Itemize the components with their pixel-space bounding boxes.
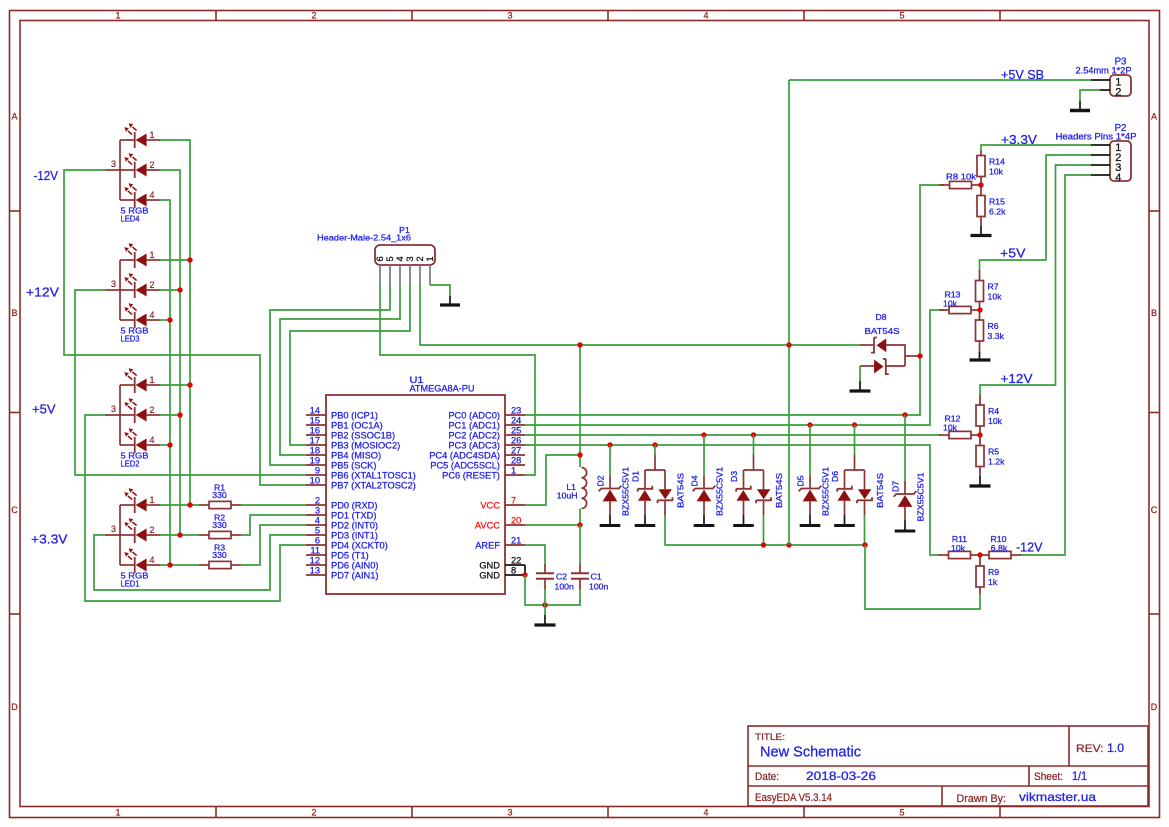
svg-text:C2: C2 — [556, 572, 567, 582]
svg-text:PB4 (MISO): PB4 (MISO) — [331, 451, 381, 461]
svg-text:10k: 10k — [988, 292, 1003, 302]
wire +5V clamp rail — [665, 544, 866, 546]
svg-text:B: B — [11, 308, 17, 318]
wire bus LED pins 1 (vertical x=190) — [160, 140, 190, 505]
title block — [748, 726, 1148, 806]
svg-text:28: 28 — [511, 456, 521, 466]
svg-text:4: 4 — [150, 310, 155, 320]
svg-text:BAT54S: BAT54S — [875, 473, 885, 508]
wire LED3 pin1 feed — [160, 259, 190, 261]
svg-text:PD5 (T1): PD5 (T1) — [331, 551, 369, 561]
svg-text:C1: C1 — [591, 572, 602, 582]
diode D6 BAT54S dual with ground — [830, 425, 885, 545]
svg-text:GND: GND — [479, 571, 500, 581]
svg-text:10: 10 — [310, 476, 320, 486]
connector P3 2.54mm 1*2P — [1076, 57, 1132, 99]
svg-text:LED2: LED2 — [121, 459, 140, 469]
wire net +3.3V(LED1): LED1 pin3 to U1 PD3 (pin 5) — [94, 535, 306, 590]
svg-text:BZX55C5V1: BZX55C5V1 — [621, 467, 631, 516]
resistor R9 1k — [976, 555, 999, 594]
wire U1 PC3 (pin 26) ADC3 row to R11 — [525, 445, 940, 555]
svg-text:PB7 (XTAL2TOSC2): PB7 (XTAL2TOSC2) — [331, 481, 416, 491]
wire +5V riser to L1 top and VCC — [579, 345, 581, 467]
IC U1 ATMEGA8A-PU microcontroller — [306, 375, 525, 594]
svg-text:+5V: +5V — [1000, 246, 1026, 261]
diode D3 BAT54S dual with ground — [729, 435, 784, 545]
svg-text:11: 11 — [310, 546, 320, 556]
wire bus LED pins 4 (vertical x=170) — [160, 200, 170, 565]
svg-text:13: 13 — [310, 566, 320, 576]
svg-text:BZX55C5V1: BZX55C5V1 — [715, 467, 725, 516]
svg-text:2.54mm 1*2P: 2.54mm 1*2P — [1076, 65, 1132, 75]
svg-text:C: C — [11, 505, 18, 515]
wire LED2 pin1 feed — [160, 384, 190, 386]
svg-text:330: 330 — [212, 550, 227, 560]
svg-text:2: 2 — [150, 280, 155, 290]
junction ADC row dots — [607, 412, 907, 447]
ground below D8 — [850, 366, 871, 391]
svg-text:LED1: LED1 — [121, 579, 140, 589]
svg-text:4: 4 — [150, 435, 155, 445]
svg-text:1: 1 — [150, 130, 155, 140]
svg-text:7: 7 — [511, 496, 516, 506]
svg-text:+5V: +5V — [32, 402, 56, 417]
junction D8 to ADC0 line — [917, 353, 922, 358]
svg-text:3: 3 — [111, 159, 116, 169]
RGB LED LED3 (pins 1,2,3,4) — [105, 243, 160, 344]
wire +5V SB to P3 pin1 — [789, 79, 1091, 81]
inductor L1 10uH — [557, 467, 587, 508]
svg-text:R8 10k: R8 10k — [946, 172, 977, 182]
wire net -12V: LED4 pin3 to U1 PB7 (pin 10) — [64, 170, 306, 485]
svg-text:+3.3V: +3.3V — [1001, 132, 1037, 147]
svg-text:R7: R7 — [988, 282, 999, 292]
svg-text:D: D — [1151, 702, 1158, 712]
svg-text:PB5 (SCK): PB5 (SCK) — [331, 461, 376, 471]
svg-text:Sheet:: Sheet: — [1034, 771, 1063, 783]
zener diode D5 BZX55C5V1 with ground — [796, 425, 831, 526]
svg-text:GND: GND — [479, 561, 500, 571]
svg-text:1: 1 — [511, 466, 516, 476]
RGB LED LED1 (pins 1,2,3,4) — [105, 488, 160, 589]
svg-text:6: 6 — [315, 536, 320, 546]
svg-text:9: 9 — [315, 466, 320, 476]
svg-text:D1: D1 — [631, 471, 641, 482]
wire U1 AREF (pin 21) to C2 — [525, 545, 545, 564]
wire rail loop to R9 bottom — [865, 545, 980, 609]
svg-text:BAT54S: BAT54S — [676, 473, 686, 508]
svg-text:3: 3 — [315, 506, 320, 516]
wire +5V label wire to P2 pin2 riser — [980, 155, 1092, 270]
wire R3 to U1 PD2 (pin 4) — [241, 525, 306, 565]
svg-text:2018-03-26: 2018-03-26 — [806, 769, 876, 783]
svg-text:3: 3 — [507, 10, 512, 20]
wire U1 PC0 (pin 23) ADC0 row to R8 — [525, 185, 944, 415]
svg-text:Headers Pins 1*4P: Headers Pins 1*4P — [1056, 132, 1137, 142]
svg-text:4: 4 — [1115, 172, 1121, 184]
wire bus LED pins 2 (vertical x=180) — [160, 170, 180, 535]
svg-text:2: 2 — [150, 525, 155, 535]
svg-text:2: 2 — [150, 405, 155, 415]
resistor R5 1.2k — [976, 435, 1005, 476]
wire P1 pin4 to U1 PB4 (pin 18) — [280, 285, 400, 455]
svg-text:1: 1 — [425, 256, 435, 261]
svg-text:D5: D5 — [796, 475, 806, 486]
svg-text:10k: 10k — [951, 543, 966, 553]
svg-text:+3.3V: +3.3V — [31, 532, 68, 547]
svg-text:TITLE:: TITLE: — [755, 732, 785, 743]
wire L1 bottom to AVCC node — [579, 509, 581, 526]
svg-text:LED4: LED4 — [121, 214, 140, 224]
svg-text:20: 20 — [511, 516, 521, 526]
svg-text:2: 2 — [315, 496, 320, 506]
junction +3.3V divider node — [978, 182, 983, 187]
svg-text:PB6 (XTAL1TOSC1): PB6 (XTAL1TOSC1) — [331, 471, 416, 481]
svg-text:D8: D8 — [875, 312, 886, 322]
svg-text:PC2 (ADC2): PC2 (ADC2) — [448, 431, 500, 441]
svg-text:4: 4 — [395, 256, 405, 261]
svg-text:6.2k: 6.2k — [989, 207, 1006, 217]
svg-text:2: 2 — [415, 256, 425, 261]
svg-text:R14: R14 — [989, 157, 1005, 167]
svg-text:PD4 (XCKT0): PD4 (XCKT0) — [331, 541, 388, 551]
wire P3 pin2 to ground — [1080, 90, 1100, 101]
wire LED2 pin4 feed — [160, 444, 170, 446]
svg-text:AVCC: AVCC — [475, 521, 500, 531]
wire LED2 pin2 feed — [160, 414, 180, 416]
svg-text:330: 330 — [212, 490, 227, 500]
junction +12V divider node — [977, 432, 982, 437]
resistor R13 10k — [939, 290, 981, 314]
svg-text:D: D — [11, 702, 18, 712]
svg-text:2: 2 — [1115, 87, 1121, 99]
svg-text:ATMEGA8A-PU: ATMEGA8A-PU — [410, 384, 475, 394]
wire U1 PC1 (pin 24) ADC1 row to R13 — [525, 310, 944, 425]
wire U1 AVCC (pin 20) to node — [525, 524, 580, 526]
svg-text:Date:: Date: — [755, 771, 779, 783]
svg-text:VCC: VCC — [480, 501, 500, 511]
diode D1 BAT54S dual with ground — [631, 445, 686, 545]
svg-text:1k: 1k — [988, 577, 998, 587]
svg-text:6: 6 — [375, 256, 385, 261]
wire AVCC node down to C1 — [579, 525, 581, 564]
svg-text:2: 2 — [311, 10, 316, 20]
resistor R14 10k — [977, 151, 1005, 186]
ground below R6 — [970, 352, 991, 360]
svg-text:R6: R6 — [988, 321, 999, 331]
junction GND net — [542, 602, 547, 607]
svg-text:8: 8 — [511, 566, 516, 576]
svg-text:6.8k: 6.8k — [991, 543, 1008, 553]
svg-text:1: 1 — [115, 10, 120, 20]
junction AVCC node — [577, 522, 582, 527]
wire +12V to P2 pin3 riser — [980, 165, 1091, 395]
wire LED1 pin2 to R2 — [160, 534, 199, 536]
junction -12V divider node — [977, 552, 982, 557]
svg-text:3.3k: 3.3k — [988, 331, 1005, 341]
svg-text:1.2k: 1.2k — [988, 457, 1005, 467]
junction +5V nodes — [577, 342, 582, 457]
wire U1 PC2 (pin 25) ADC2 row to R12 — [525, 434, 941, 436]
svg-text:PD0 (RXD): PD0 (RXD) — [331, 501, 378, 511]
svg-text:10k: 10k — [943, 423, 958, 433]
svg-text:R4: R4 — [988, 406, 999, 416]
svg-text:26: 26 — [511, 436, 521, 446]
svg-text:1: 1 — [150, 495, 155, 505]
svg-text:27: 27 — [511, 446, 521, 456]
wire R1 to U1 PD0 (pin 2) — [241, 504, 306, 506]
svg-text:5: 5 — [899, 10, 904, 20]
resistor R12 10k — [939, 414, 981, 439]
wire U1 GND pins 22,8 tie — [524, 565, 526, 575]
svg-text:+5V SB: +5V SB — [1001, 67, 1044, 82]
svg-text:D3: D3 — [729, 471, 739, 482]
svg-text:1: 1 — [150, 375, 155, 385]
junction riser to +5V row — [786, 342, 791, 347]
ground below R5 — [970, 476, 991, 486]
svg-text:Header-Male-2.54_1x6: Header-Male-2.54_1x6 — [317, 233, 411, 243]
svg-text:PD6 (AIN0): PD6 (AIN0) — [331, 561, 379, 571]
svg-text:10uH: 10uH — [557, 491, 578, 501]
capacitor C2 100n — [536, 564, 574, 591]
svg-text:24: 24 — [511, 416, 521, 426]
resistor R8 10k — [940, 172, 982, 189]
svg-text:New Schematic: New Schematic — [760, 744, 861, 761]
svg-text:vikmaster.ua: vikmaster.ua — [1019, 790, 1096, 804]
svg-text:R5: R5 — [988, 447, 999, 457]
svg-text:PB3 (MOSIOC2): PB3 (MOSIOC2) — [331, 441, 400, 451]
ground below P1 pin1 — [440, 296, 460, 305]
resistor R7 10k — [976, 270, 1003, 310]
resistor R11 10k — [939, 534, 981, 559]
svg-text:-12V: -12V — [34, 168, 59, 183]
svg-text:100n: 100n — [555, 581, 574, 591]
svg-text:B: B — [1151, 308, 1157, 318]
wire P1 pin2 +5V rail to D8 — [420, 285, 860, 345]
svg-text:D2: D2 — [596, 475, 606, 486]
svg-text:3: 3 — [507, 807, 512, 817]
zener diode D4 BZX55C5V1 with ground — [690, 435, 725, 526]
svg-text:PB2 (SSOC1B): PB2 (SSOC1B) — [331, 431, 395, 441]
wire GND net: pins to caps bottom — [525, 575, 580, 605]
svg-text:4: 4 — [150, 190, 155, 200]
svg-text:1.0: 1.0 — [1107, 743, 1124, 755]
svg-text:PD3 (INT1): PD3 (INT1) — [331, 531, 378, 541]
svg-text:BZX55C5V1: BZX55C5V1 — [916, 472, 926, 521]
resistor R2 330 — [199, 513, 241, 539]
wire net +12V: LED3 pin3 to U1 PB6 (pin 9) — [75, 290, 306, 475]
svg-text:PB1 (OC1A): PB1 (OC1A) — [331, 421, 383, 431]
svg-text:PD1 (TXD): PD1 (TXD) — [331, 511, 376, 521]
wire +3.3V to P2 pin1 — [981, 145, 1091, 151]
RGB LED LED2 (pins 1,2,3,4) — [105, 368, 160, 469]
svg-text:16: 16 — [310, 426, 320, 436]
svg-text:PB0 (ICP1): PB0 (ICP1) — [331, 411, 378, 421]
wire P1 pin3 to U1 PB3 (pin 17) — [290, 285, 410, 445]
svg-text:17: 17 — [310, 436, 320, 446]
wire net +5V(LED2): LED2 pin3 to U1 PD4 (pin 6) — [85, 415, 306, 601]
resistor R15 6.2k — [977, 185, 1006, 226]
svg-text:100n: 100n — [589, 581, 608, 591]
svg-text:BAT54S: BAT54S — [865, 326, 900, 336]
svg-text:4: 4 — [150, 555, 155, 565]
svg-text:-12V: -12V — [1016, 540, 1043, 555]
svg-text:AREF: AREF — [475, 541, 500, 551]
svg-text:2: 2 — [311, 807, 316, 817]
svg-text:5: 5 — [315, 526, 320, 536]
svg-text:EasyEDA V5.3.14: EasyEDA V5.3.14 — [755, 792, 832, 804]
svg-text:PC5 (ADC5SCL): PC5 (ADC5SCL) — [430, 461, 500, 471]
svg-text:3: 3 — [405, 256, 415, 261]
svg-text:4: 4 — [703, 807, 708, 817]
junction LED bus dots — [167, 257, 192, 567]
ground below C1 C2 — [535, 605, 556, 625]
svg-text:PC6 (RESET): PC6 (RESET) — [442, 471, 500, 481]
svg-text:14: 14 — [310, 406, 320, 416]
wire P1 pin6 to U1 PC6 RESET (pin 1) — [380, 285, 535, 475]
svg-text:PC3 (ADC3): PC3 (ADC3) — [448, 441, 500, 451]
svg-text:1: 1 — [150, 250, 155, 260]
svg-text:3: 3 — [111, 404, 116, 414]
svg-text:22: 22 — [511, 556, 521, 566]
svg-text:3: 3 — [111, 524, 116, 534]
svg-text:PD2 (INT0): PD2 (INT0) — [331, 521, 378, 531]
wire C2 bottom stub — [544, 589, 546, 605]
svg-text:19: 19 — [310, 456, 320, 466]
svg-text:15: 15 — [310, 416, 320, 426]
svg-text:C: C — [1151, 505, 1158, 515]
svg-text:4: 4 — [703, 10, 708, 20]
wire U1 VCC (pin 7) to +5V node — [525, 455, 580, 505]
RGB LED LED4 (pins 1,2,3,4) — [105, 123, 160, 224]
svg-text:PC1 (ADC1): PC1 (ADC1) — [448, 421, 500, 431]
ground below R15 — [971, 226, 992, 236]
wire -12V to P2 pin4 riser — [1020, 175, 1092, 555]
svg-text:LED3: LED3 — [121, 334, 140, 344]
svg-text:3: 3 — [111, 279, 116, 289]
svg-text:BAT54S: BAT54S — [774, 473, 784, 508]
connector P2 Headers Pins 1*4P — [1056, 123, 1137, 184]
resistor R10 6.8k — [979, 534, 1021, 559]
svg-text:1/1: 1/1 — [1072, 769, 1087, 783]
wire R2 to U1 PD1 (pin 3) — [241, 515, 306, 535]
svg-text:Drawn By:: Drawn By: — [957, 793, 1007, 805]
zener diode D7 BZX55C5V1 with ground — [891, 415, 926, 531]
svg-text:R9: R9 — [988, 567, 999, 577]
svg-text:A: A — [11, 112, 17, 122]
resistor R1 330 — [199, 483, 241, 509]
svg-text:10k: 10k — [988, 416, 1003, 426]
svg-text:25: 25 — [511, 426, 521, 436]
svg-text:12: 12 — [310, 556, 320, 566]
wire P1 pin5 to U1 PB5 (pin 19) — [270, 285, 390, 465]
svg-text:23: 23 — [511, 406, 521, 416]
junction GND pin node — [522, 572, 527, 577]
wire LED1 pin1 to R1 — [160, 504, 199, 506]
svg-text:330: 330 — [212, 520, 227, 530]
svg-text:5: 5 — [899, 807, 904, 817]
wire LED1 pin4 to R3 — [160, 564, 199, 566]
svg-text:D6: D6 — [830, 471, 840, 482]
zener diode D2 BZX55C5V1 with ground — [596, 445, 631, 526]
junction +5V divider node — [977, 307, 982, 312]
svg-text:2: 2 — [150, 160, 155, 170]
svg-text:PD7 (AIN1): PD7 (AIN1) — [331, 571, 379, 581]
resistor R4 10k — [976, 395, 1003, 435]
wire LED3 pin2 feed — [160, 289, 180, 291]
svg-text:10k: 10k — [943, 299, 958, 309]
connector P1 Header-Male-2.54_1x6 — [317, 225, 435, 285]
wire P1 pin1 to ground — [430, 285, 450, 296]
resistor R6 3.3k — [976, 310, 1005, 352]
svg-text:18: 18 — [310, 446, 320, 456]
wire LED3 pin4 feed — [160, 319, 170, 321]
svg-text:A: A — [1151, 112, 1157, 122]
svg-text:R15: R15 — [989, 197, 1005, 207]
svg-text:REV:: REV: — [1076, 743, 1104, 755]
capacitor C1 100n — [571, 564, 608, 591]
diode D8 BAT54S dual — [860, 312, 920, 374]
ground below P3 pin2 — [1070, 101, 1090, 111]
resistor R3 330 — [199, 543, 241, 569]
svg-text:1: 1 — [115, 807, 120, 817]
junction +5V rail dots — [761, 542, 868, 547]
svg-text:+12V: +12V — [1001, 371, 1033, 386]
wire +5V SB riser x=789 — [788, 80, 790, 545]
svg-text:PC4 (ADC4SDA): PC4 (ADC4SDA) — [429, 451, 500, 461]
svg-text:D4: D4 — [690, 475, 700, 486]
svg-text:21: 21 — [511, 536, 521, 546]
svg-text:5: 5 — [385, 256, 395, 261]
svg-text:+12V: +12V — [26, 285, 59, 300]
svg-text:10k: 10k — [989, 167, 1004, 177]
svg-text:D7: D7 — [891, 481, 901, 492]
svg-text:PC0 (ADC0): PC0 (ADC0) — [448, 411, 500, 421]
svg-text:4: 4 — [315, 516, 320, 526]
